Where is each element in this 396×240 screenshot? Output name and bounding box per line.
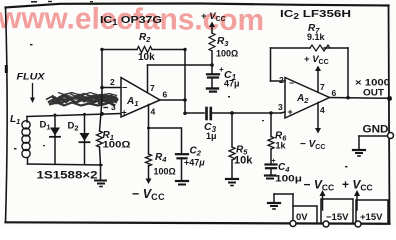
svg-text:−: −	[122, 83, 127, 93]
svg-text:47μ: 47μ	[224, 79, 240, 89]
svg-text:+: +	[122, 108, 127, 118]
-15V arrow up	[320, 190, 326, 196]
+15V arrow up	[354, 190, 360, 196]
R4 -Vcc arrow down	[146, 179, 152, 185]
wire: A1 pin2 wire	[102, 87, 121, 89]
tick on left border	[5, 67, 8, 72]
svg-text:7: 7	[150, 83, 155, 93]
diode D1	[54, 115, 56, 164]
svg-text:2: 2	[279, 75, 284, 85]
svg-text:4: 4	[320, 105, 325, 115]
op-amp A2	[285, 78, 330, 119]
svg-text:100Ω: 100Ω	[103, 140, 131, 150]
terminal circles	[290, 133, 394, 228]
svg-text:+47μ: +47μ	[184, 158, 205, 168]
svg-text:3: 3	[111, 102, 116, 112]
GND terminal wire	[359, 135, 388, 137]
svg-text:GND: GND	[363, 124, 389, 136]
svg-text:1S1588×2: 1S1588×2	[37, 170, 98, 182]
svg-text:10k: 10k	[234, 155, 253, 167]
arrowheads	[30, 22, 360, 197]
svg-text:4: 4	[151, 107, 156, 117]
+Vcc top arrow up	[209, 22, 215, 28]
svg-text:−: −	[289, 78, 294, 88]
inductor L1	[26, 117, 28, 123]
0V terminal wire + ground	[292, 194, 294, 223]
svg-text:100Ω: 100Ω	[154, 167, 176, 177]
scribble noise over input wire	[46, 93, 119, 106]
+Vcc arrow and R3 column	[211, 27, 213, 33]
ground under input network	[100, 165, 102, 179]
frame border	[6, 4, 389, 8]
diode D1 triangle	[50, 128, 60, 136]
FLUX down arrow	[32, 83, 34, 98]
diode D2 triangle	[80, 133, 90, 141]
svg-text:+: +	[288, 107, 293, 117]
svg-text:9.1k: 9.1k	[307, 32, 326, 42]
svg-text:IC2 LF356H: IC2 LF356H	[280, 8, 351, 21]
capacitor C3 1u	[205, 108, 208, 119]
svg-text:100Ω: 100Ω	[216, 49, 238, 59]
wire: A1 pin7 to supply node	[147, 65, 149, 93]
resistor R1 (with feedback node column)	[100, 50, 103, 132]
resistor R2 feedback 10k	[102, 49, 137, 51]
svg-text:10k: 10k	[138, 52, 155, 63]
wire: A1 output	[160, 99, 185, 101]
capacitor C1 47u	[207, 73, 219, 75]
wire: bottom wire of input network	[28, 164, 103, 165]
svg-text:1k: 1k	[276, 141, 287, 151]
svg-text:+15V: +15V	[360, 212, 383, 223]
A2 -Vcc arrow down	[315, 128, 321, 134]
A2 pin2 wire	[271, 80, 286, 82]
dash before pin3 label	[104, 107, 108, 109]
A2 pin4 -Vcc arrow	[317, 103, 319, 130]
svg-text:100μ: 100μ	[275, 174, 302, 184]
svg-text:7: 7	[320, 82, 325, 92]
svg-text:6: 6	[163, 90, 168, 100]
resistor R6 column + C4	[270, 113, 272, 137]
op-amp A1	[121, 78, 160, 118]
svg-text:2: 2	[110, 77, 115, 87]
svg-text:OUT: OUT	[363, 88, 384, 99]
svg-text:1μ: 1μ	[206, 131, 217, 141]
diode D2	[84, 114, 86, 164]
resistor R5 column	[231, 113, 233, 147]
svg-text:+: +	[272, 158, 276, 165]
svg-text:0V: 0V	[296, 212, 308, 223]
svg-text:FLUX: FLUX	[17, 72, 46, 83]
C2 branch	[149, 127, 182, 129]
+15V arrow to +Vcc	[356, 194, 358, 210]
wire: input top wire from L1 to A1 pin3 with jog	[27, 114, 121, 117]
0V box	[293, 206, 317, 223]
A2 output wire	[330, 97, 390, 100]
scan specks	[14, 1, 348, 168]
+15V box	[356, 200, 388, 223]
svg-text:IC1 OP37G: IC1 OP37G	[100, 14, 162, 27]
R7 feedback 9.1k	[270, 48, 272, 81]
A2 +Vcc arrow up	[315, 66, 321, 72]
-15V box	[321, 199, 353, 223]
svg-text:3: 3	[278, 102, 283, 112]
svg-text:6: 6	[332, 88, 337, 98]
A2 pin7 +Vcc arrow	[317, 70, 319, 92]
A1 pin4 / R4 column	[148, 105, 150, 155]
svg-text:−15V: −15V	[326, 212, 349, 223]
-15V arrow to -Vcc	[322, 194, 324, 210]
